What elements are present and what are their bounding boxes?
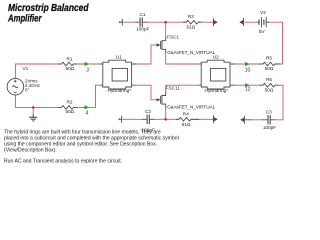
connector arrow C2 row (119, 116, 122, 123)
node 4 (85, 105, 90, 109)
wire ground stub (32, 107, 34, 115)
svg-text:R5: R5 (266, 56, 272, 61)
wire V1 bottom rail (15, 95, 57, 107)
junction bottom rail (164, 118, 167, 121)
svg-text:U1: U1 (116, 55, 122, 60)
transistor FSC1 (157, 37, 166, 54)
connector arrow C1 row (120, 19, 123, 26)
svg-text:(View/Description Box).: (View/Description Box). (4, 148, 57, 154)
wire U2 to node12 to R6 (235, 84, 259, 86)
svg-text:0°: 0° (25, 87, 29, 92)
transistor FSC11 (157, 92, 166, 109)
wire R6 to C3 (252, 85, 283, 120)
voltage source V1 (7, 78, 24, 95)
svg-text:R4: R4 (183, 111, 189, 116)
svg-text:R2: R2 (67, 100, 73, 105)
svg-text:100pF: 100pF (263, 125, 276, 130)
svg-text:Hybridring*: Hybridring* (205, 88, 229, 93)
junction top rail (164, 21, 167, 24)
ground (29, 115, 37, 121)
svg-text:U2: U2 (213, 55, 219, 60)
wire FSC11 drain to U2 (166, 85, 199, 91)
svg-text:10: 10 (245, 67, 251, 73)
offpage arrow left (battery) (243, 18, 245, 26)
node 12 (245, 83, 250, 87)
svg-text:50Ω: 50Ω (65, 66, 74, 71)
svg-text:V1: V1 (23, 66, 29, 71)
svg-text:Hybridring*: Hybridring* (108, 88, 132, 93)
svg-text:3: 3 (86, 68, 89, 74)
wire U1 bottomright to FSC11 gate (136, 85, 156, 100)
node 10 (245, 62, 250, 66)
svg-text:C1: C1 (140, 12, 146, 17)
offpage arrow left (C3) (243, 116, 245, 124)
wire V1 top to R1 (15, 64, 57, 78)
resistor R2 (58, 106, 78, 110)
resistor R4 (176, 118, 199, 122)
battery V2 (256, 17, 269, 27)
hybrid ring U1 (100, 60, 136, 89)
svg-text:FSC11: FSC11 (166, 85, 181, 90)
svg-text:Run AC and Transient analysis: Run AC and Transient analysis to explore… (4, 159, 122, 165)
wire U1 topright to FSC1 gate (136, 45, 156, 64)
resistor R5 (259, 62, 280, 66)
svg-text:50Ω: 50Ω (265, 66, 274, 71)
wire node 4 riser to U1 (77, 85, 100, 107)
svg-text:GaAsFET_N_VIRTUAL: GaAsFET_N_VIRTUAL (167, 105, 215, 110)
wire battery branch (244, 22, 282, 64)
capacitor C1 (135, 18, 148, 27)
svg-text:50Ω: 50Ω (265, 87, 274, 92)
svg-text:51Ω: 51Ω (182, 122, 191, 127)
svg-text:R1: R1 (67, 56, 73, 61)
resistor R6 (259, 83, 280, 87)
hybrid ring U2 (199, 60, 235, 89)
capacitor C3 (245, 115, 277, 124)
wire FSC1 drain riser (165, 22, 167, 36)
wire top rail C1 (122, 21, 213, 23)
wire FSC1 source to U2 (166, 54, 199, 65)
wire U2 to node10 to R5 (235, 63, 259, 65)
svg-text:Amplifier: Amplifier (7, 13, 42, 24)
svg-text:C3: C3 (266, 109, 272, 114)
svg-text:C2: C2 (145, 109, 151, 114)
svg-text:V2: V2 (260, 10, 266, 15)
capacitor C2 (142, 115, 155, 124)
svg-text:50Ω: 50Ω (65, 109, 74, 114)
svg-text:100pF: 100pF (136, 27, 149, 32)
junction V1 ground (32, 106, 35, 109)
svg-text:51Ω: 51Ω (187, 25, 196, 30)
wire bottom rail C2 R4 (122, 118, 213, 120)
offpage arrow right (R4) (212, 115, 214, 123)
svg-text:R3: R3 (188, 14, 194, 19)
resistor R1 (58, 62, 78, 66)
svg-text:FSC1: FSC1 (167, 34, 179, 39)
svg-text:12: 12 (245, 87, 251, 93)
wire R1 to node 3 to U1 (77, 63, 100, 65)
offpage arrow right (R3) (212, 18, 214, 26)
svg-text:R6: R6 (266, 77, 272, 82)
wire FSC11 source riser (165, 109, 167, 120)
svg-text:GaAsFET_N_VIRTUAL: GaAsFET_N_VIRTUAL (167, 50, 215, 55)
resistor R3 (183, 20, 202, 24)
svg-text:4: 4 (86, 111, 89, 117)
node 3 (85, 62, 90, 66)
svg-text:5V: 5V (259, 29, 266, 34)
